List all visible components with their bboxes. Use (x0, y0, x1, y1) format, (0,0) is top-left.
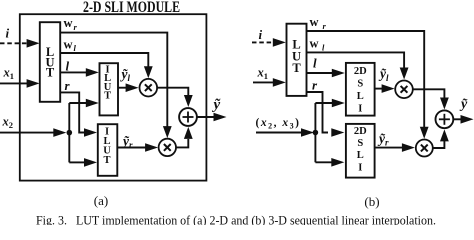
svg-text:L: L (357, 150, 364, 161)
svg-text:wl: wl (64, 37, 77, 53)
svg-text:L: L (357, 91, 364, 102)
svg-text:i: i (259, 27, 263, 42)
svg-text:l: l (313, 56, 317, 71)
svg-text:ỹ: ỹ (459, 97, 468, 112)
svg-text:T: T (104, 91, 111, 102)
svg-text:ỹl: ỹl (120, 67, 131, 84)
svg-text:Fig. 3. LUT implementation o: Fig. 3. LUT implementation of (a) 2-D an… (36, 213, 436, 226)
svg-text:ỹr: ỹr (377, 131, 389, 148)
svg-text:(x2, x3): (x2, x3) (256, 117, 301, 131)
svg-text:i: i (6, 25, 10, 40)
svg-text:ỹ: ỹ (212, 97, 221, 113)
svg-text:wr: wr (310, 15, 327, 31)
svg-text:wl: wl (310, 37, 326, 53)
svg-text:x1: x1 (257, 65, 269, 81)
svg-text:T: T (46, 66, 55, 80)
svg-text:S: S (357, 79, 363, 90)
svg-text:I: I (358, 104, 362, 115)
svg-text:2-D SLI MODULE: 2-D SLI MODULE (83, 0, 180, 16)
svg-text:ỹl: ỹl (378, 66, 389, 83)
svg-text:x2: x2 (2, 114, 14, 130)
svg-text:(b): (b) (364, 194, 379, 209)
svg-text:(a): (a) (94, 193, 108, 208)
svg-text:x1: x1 (3, 65, 15, 81)
svg-text:2D: 2D (354, 66, 367, 77)
svg-text:ỹr: ỹr (121, 133, 133, 150)
svg-text:r: r (65, 78, 71, 93)
svg-text:S: S (357, 138, 363, 149)
svg-text:T: T (292, 61, 301, 75)
svg-text:l: l (66, 59, 70, 74)
svg-text:I: I (358, 162, 362, 173)
svg-text:2D: 2D (354, 126, 367, 137)
svg-text:T: T (103, 155, 110, 166)
svg-text:wr: wr (64, 16, 78, 32)
svg-text:r: r (312, 78, 318, 93)
